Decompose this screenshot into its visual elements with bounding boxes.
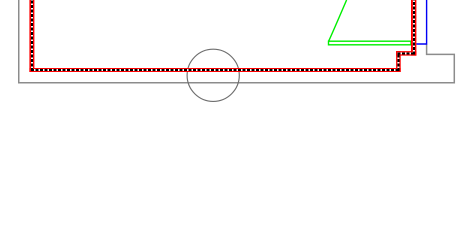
node green door leaf — [329, 41, 411, 45]
node circle column marker — [187, 49, 239, 101]
wire blue wall edge — [416, 0, 426, 44]
wire red wall band: red base strokes — [29, 0, 416, 72]
wire gray site boundary polyline — [19, 0, 455, 83]
wire red wall band: white centre cores — [31, 0, 415, 71]
wire green door swing arc — [329, 0, 347, 41]
wire red wall band: black dashed centrelines — [31, 0, 415, 71]
